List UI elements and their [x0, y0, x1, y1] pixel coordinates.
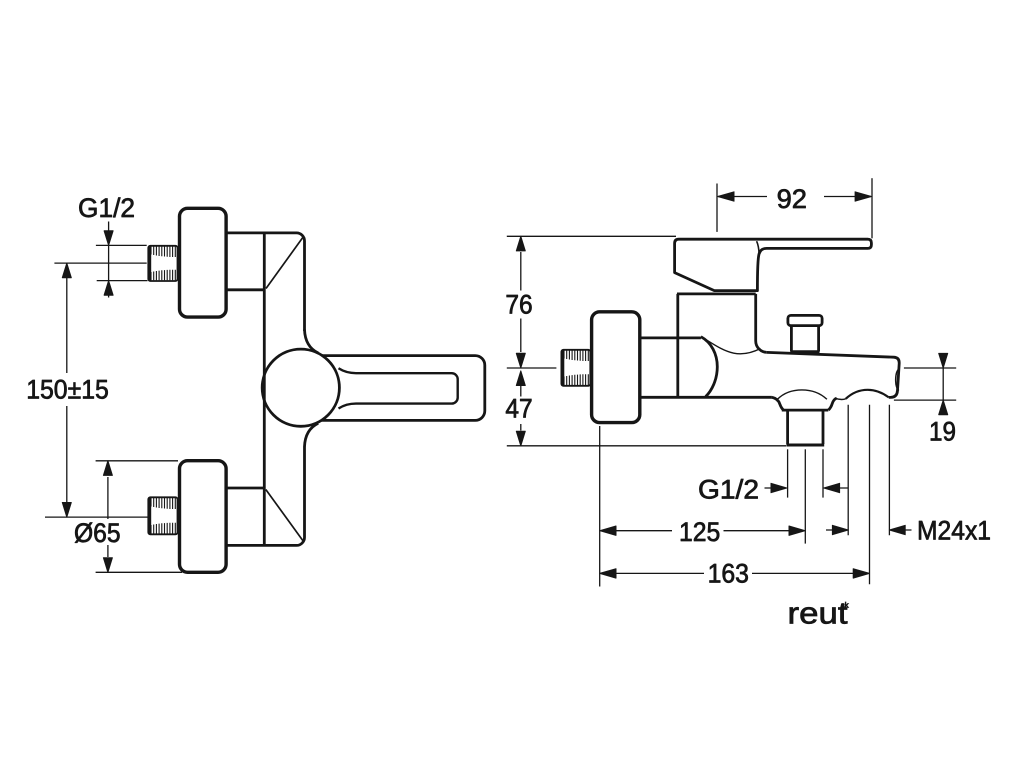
extension line bottom long (47 bottom / pipe bottom)	[507, 445, 786, 447]
svg-text:sk: sk	[841, 601, 849, 610]
handle cap and lever (side)	[675, 239, 872, 290]
arrow up Ø65	[103, 461, 112, 476]
arrow down 150	[62, 503, 71, 518]
extension line aerator bottom	[894, 399, 956, 401]
svg-text:76: 76	[505, 289, 532, 319]
arrow up 47 top	[516, 371, 525, 386]
extension line G1/2 upper	[96, 244, 147, 246]
connector top edge	[641, 336, 701, 339]
svg-text:163: 163	[708, 559, 749, 589]
body bottom edge (flange to diverter)	[641, 396, 772, 399]
extension aerator left	[847, 405, 849, 536]
arrow up 150	[62, 263, 71, 278]
thread hatch top nipple	[151, 247, 175, 281]
wall flange (side)	[592, 312, 640, 423]
arrow right M24x1	[832, 525, 848, 534]
diverter pipe sides	[788, 410, 823, 444]
body right edge lower + bottom edge	[227, 447, 305, 546]
arrow right 92	[855, 192, 871, 201]
dimension Ø65 leader line	[107, 477, 109, 557]
wall flange bottom (front)	[180, 461, 227, 573]
axis centerline left stub	[507, 367, 557, 369]
diverter pipe bottom	[786, 444, 824, 447]
aerator dome arc	[846, 390, 889, 399]
dimension G1/2 (side) tails	[765, 487, 849, 489]
arrow down G1/2	[104, 231, 113, 246]
extension line wall (left) long	[599, 426, 601, 587]
dimension 92 extension right	[871, 178, 873, 238]
connector block bottom top edge	[227, 487, 264, 490]
body dome arc	[701, 337, 717, 397]
extension line top (lever top level)	[507, 235, 676, 237]
dimension M24x1 tails	[826, 529, 912, 531]
arrow down 76 bottom	[516, 353, 525, 368]
svg-text:G1/2: G1/2	[698, 475, 759, 505]
handle lever outer outline	[322, 356, 485, 421]
dimension 163 line	[601, 572, 854, 574]
chamfer diagonal top	[266, 237, 304, 289]
extension line Ø65 top	[96, 460, 178, 462]
arrow left 92	[718, 192, 734, 201]
handle pivot circle	[262, 349, 339, 426]
threaded nipple top (front)	[148, 246, 177, 281]
arrow right G1/2 side	[771, 483, 787, 492]
blend S-curve	[703, 338, 761, 354]
diverter base line	[782, 409, 829, 412]
svg-text:Ø65: Ø65	[74, 518, 121, 548]
dimension 19 leader	[942, 368, 944, 400]
cartridge neck left edge	[676, 294, 679, 397]
svg-text:150±15: 150±15	[26, 375, 109, 405]
arrow down 47 bottom	[516, 431, 525, 446]
extension pipe centre	[804, 449, 806, 543]
cartridge neck right edge with corner into spout	[756, 294, 767, 353]
arrow left M24x1	[889, 525, 905, 534]
arrow left 125	[600, 526, 616, 535]
extension line G1/2 lower	[97, 280, 148, 282]
handle lever inner outline	[339, 368, 458, 408]
wall flange top (front)	[180, 208, 227, 317]
thread hatch bottom nipple	[151, 498, 175, 534]
svg-text:92: 92	[777, 184, 807, 214]
connector block top bottom edge	[227, 288, 264, 291]
arrow right 163	[853, 569, 869, 578]
spout opening inner arc	[896, 369, 900, 391]
thread hatch side nipple	[564, 351, 588, 386]
spout top edge and right end	[767, 352, 899, 397]
flare body to handle bottom	[305, 423, 319, 447]
arrow up 19 bottom	[939, 400, 948, 415]
shower stub tube sides	[791, 326, 818, 352]
diverter right slope	[828, 398, 836, 410]
body left edge	[263, 233, 266, 546]
cartridge neck top edge	[677, 292, 756, 295]
dimension 92 extension left	[716, 184, 718, 232]
axis centerline right stub	[904, 367, 956, 369]
extension line Ø65 bottom	[96, 571, 182, 573]
arrow up G1/2	[104, 281, 113, 296]
arrow up 76 top	[516, 236, 525, 251]
flare body to handle top	[305, 330, 319, 354]
shower stub cap	[788, 315, 822, 325]
centerline top connection	[54, 262, 146, 264]
arrow down 19 top	[939, 353, 948, 368]
svg-text:M24x1: M24x1	[917, 515, 991, 545]
extension pipe left	[787, 449, 789, 497]
dip between diverter and aerator	[836, 398, 846, 399]
threaded nipple bottom (front)	[148, 497, 177, 534]
dimension leader 76/47	[520, 252, 522, 431]
arrow down Ø65	[103, 558, 112, 573]
arrow right 125	[789, 526, 805, 535]
centerline bottom connection	[45, 516, 148, 518]
svg-text:47: 47	[505, 393, 532, 423]
lever root kink line	[757, 241, 760, 254]
connector block top edge + body top edge	[227, 233, 305, 331]
arrow left G1/2 side	[824, 483, 840, 492]
dimension 125 line	[601, 530, 790, 532]
svg-text:reut: reut	[788, 596, 848, 631]
diverter dome thin arc	[777, 390, 827, 399]
chamfer diagonal bottom	[266, 490, 304, 542]
svg-text:19: 19	[929, 417, 956, 447]
shower stub base bar	[791, 350, 820, 353]
extension pipe right	[822, 449, 824, 497]
svg-text:G1/2: G1/2	[78, 193, 135, 223]
dimension line 150±15	[66, 263, 68, 517]
threaded nipple (side)	[561, 350, 590, 386]
extension aerator right	[888, 405, 890, 536]
dimension G1/2 leader line	[108, 222, 110, 298]
dimension 92 line	[718, 196, 871, 198]
diverter left slope	[772, 397, 784, 410]
arrow left 163	[600, 569, 616, 578]
svg-text:125: 125	[679, 517, 720, 547]
extension aerator centre	[869, 405, 871, 585]
